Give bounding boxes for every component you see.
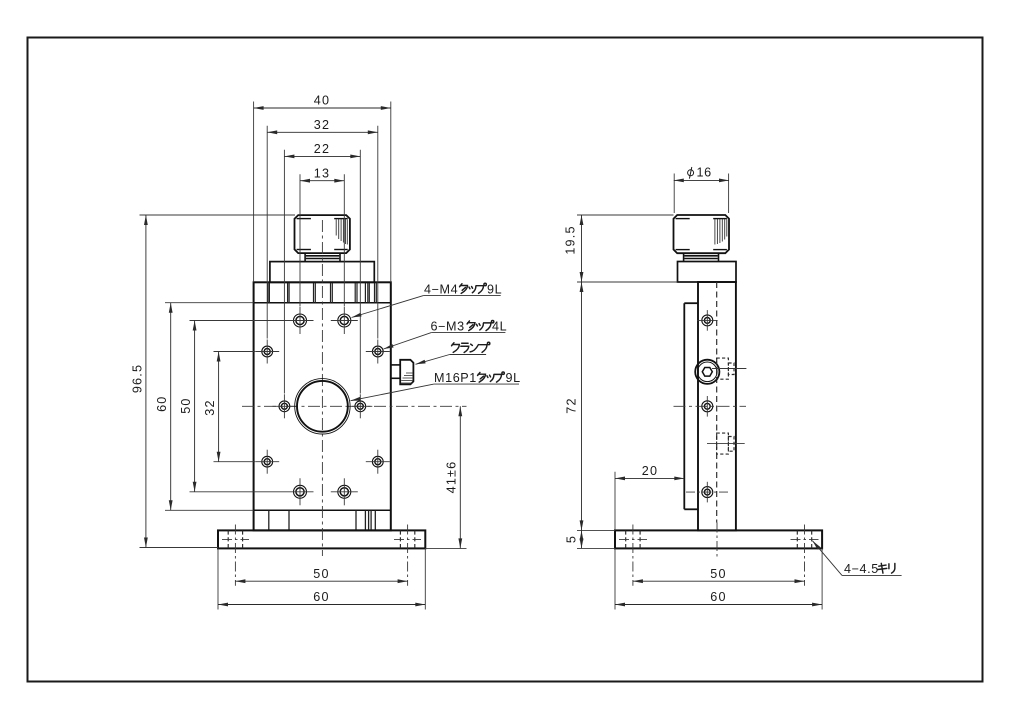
label 6-M3 tap 4L — [384, 320, 508, 349]
base plate (front) — [218, 530, 425, 548]
bottom 50 dimension — [235, 580, 407, 582]
bottom knurled band upper edge — [254, 509, 391, 511]
svg-text:50: 50 — [313, 567, 329, 581]
vertical centerline — [321, 220, 323, 556]
bottom 60 dimension ext lines — [218, 548, 425, 609]
dimension 40 — [254, 107, 391, 109]
dimension 32 vertical — [218, 352, 220, 462]
column (side) — [698, 282, 736, 530]
top plate (side) — [678, 262, 737, 283]
dimension 13 — [300, 180, 344, 182]
top band segment lines — [268, 282, 376, 302]
bottom 60 dimension (side) — [615, 604, 822, 606]
svg-text:13: 13 — [314, 166, 330, 180]
dimension 72 — [581, 282, 583, 530]
svg-text:72: 72 — [564, 397, 578, 413]
svg-text:32: 32 — [314, 118, 330, 132]
bottom 50 dimension (side) — [633, 580, 805, 582]
phi16 extension lines — [674, 174, 728, 214]
stage main body outline — [254, 282, 391, 530]
svg-text:19.5: 19.5 — [563, 225, 577, 254]
dimension 50 vertical — [194, 321, 196, 492]
knob chamfer inner lines (side) — [676, 219, 727, 250]
clamp hidden rectangle upper — [717, 358, 734, 379]
base hole centerlines — [222, 525, 421, 586]
knob knurl lines — [336, 219, 347, 245]
svg-text:22: 22 — [314, 142, 330, 156]
svg-text:4−M4: 4−M4 — [424, 283, 458, 297]
column centerline through base — [716, 523, 718, 560]
base plate (side) — [615, 530, 822, 548]
top knurled band lower edge — [254, 302, 391, 304]
svg-text:20: 20 — [642, 464, 658, 478]
side hole middle — [702, 396, 713, 417]
dimension 22 — [284, 155, 360, 157]
dimension 5 — [581, 530, 583, 548]
knob stem (side) — [684, 253, 719, 261]
base hole centerlines (side) — [619, 525, 819, 586]
svg-text:5: 5 — [564, 535, 578, 543]
svg-text:50: 50 — [710, 567, 726, 581]
extension lines for width dims 40/32/22/13 — [254, 102, 391, 394]
dimension phi16 — [674, 179, 729, 181]
bottom 60 dimension ext lines (side) — [615, 548, 822, 609]
label 4-M4 tap 9L — [352, 283, 503, 318]
svg-text:60: 60 — [710, 590, 726, 604]
svg-text:60: 60 — [313, 590, 329, 604]
svg-text:16: 16 — [697, 166, 712, 180]
knob chamfer inner lines — [297, 219, 348, 250]
svg-text:4−4.5: 4−4.5 — [844, 562, 879, 576]
clamp axis line lower — [707, 443, 745, 445]
label M16P1 tap 9L — [351, 371, 521, 401]
clamp axis line upper — [712, 368, 746, 370]
hidden M16 hole line — [716, 282, 718, 523]
96.5 extension lines — [140, 215, 296, 548]
svg-text:6−M3: 6−M3 — [431, 320, 465, 334]
dimension 32 — [267, 131, 378, 133]
side view horizontal centerline — [674, 405, 747, 407]
dimension 19.5 — [581, 215, 583, 282]
dimension 96.5 — [145, 215, 147, 548]
knob knurl lines (side) — [715, 219, 727, 245]
side hole top — [697, 310, 718, 331]
slide plate (side) — [684, 303, 698, 509]
M3 tapped corner holes (4x) — [255, 340, 390, 474]
base hidden hole lines left — [228, 530, 242, 548]
svg-text:9L: 9L — [487, 283, 502, 297]
clamp hidden rectangle lower — [717, 433, 734, 454]
32 extension lines — [214, 352, 256, 462]
dimension 20 — [615, 477, 684, 479]
20 dimension ext line — [614, 472, 616, 531]
svg-text:96.5: 96.5 — [131, 364, 145, 393]
svg-text:50: 50 — [179, 397, 193, 413]
svg-text:32: 32 — [203, 399, 217, 415]
M4 tapped holes (4x) — [287, 307, 358, 505]
clamp knurl hatch — [401, 373, 413, 383]
svg-text:40: 40 — [314, 94, 330, 108]
label clamp (kuranpu) — [416, 342, 490, 364]
horizontal centerline — [242, 405, 467, 407]
svg-text:9L: 9L — [506, 371, 521, 385]
M16 center tapped hole — [295, 379, 350, 434]
top plate — [270, 262, 374, 283]
dimension 60 vertical — [170, 303, 172, 511]
side hole bottom — [686, 482, 730, 503]
clamp screw head (side) — [695, 360, 719, 384]
knob (side) — [674, 215, 730, 253]
svg-text:4L: 4L — [492, 320, 507, 334]
label 4-4.5 drill (kiri) — [813, 541, 902, 576]
svg-text:60: 60 — [155, 395, 169, 411]
bottom band segment lines — [269, 510, 376, 530]
bottom 60 dimension — [218, 604, 425, 606]
left side extension lines (19.5 / 72 / 5) — [577, 215, 678, 548]
50 extension lines — [190, 321, 287, 492]
svg-text:41±6: 41±6 — [445, 461, 459, 494]
knob (front) — [295, 215, 350, 253]
60 extension lines — [165, 303, 254, 511]
base hidden hole lines right — [400, 530, 414, 548]
M3 tapped middle holes (2x) — [272, 394, 372, 418]
knob stem — [305, 253, 340, 261]
base hidden hole lines (side) — [626, 530, 812, 548]
clamp screw (front) — [391, 360, 414, 385]
dimension 41±6 — [459, 406, 461, 548]
41±6 extension line — [425, 547, 466, 549]
svg-text:M16P1: M16P1 — [434, 371, 477, 385]
